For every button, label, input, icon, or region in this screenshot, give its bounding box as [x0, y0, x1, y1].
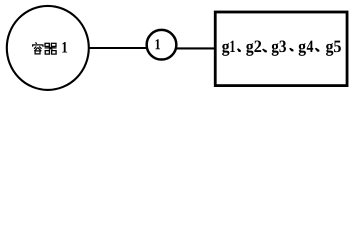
container circle	[7, 6, 89, 90]
label g3	[272, 43, 279, 56]
label g2	[246, 43, 253, 56]
label 1 in container	[62, 42, 67, 52]
wire node-to-box	[173, 47, 217, 49]
comma 3	[289, 48, 294, 52]
comma 4	[315, 48, 320, 52]
comma 1	[237, 48, 241, 52]
comma 2	[262, 49, 267, 53]
node circle	[147, 30, 177, 60]
label 1 in node	[155, 39, 159, 49]
wire container-to-node	[86, 47, 150, 49]
label rong (container) glyph	[32, 42, 43, 54]
label g4	[299, 43, 306, 56]
label g5	[326, 43, 333, 56]
label g1	[222, 43, 229, 56]
label qi (vessel) glyph	[45, 43, 57, 54]
box	[215, 12, 347, 86]
